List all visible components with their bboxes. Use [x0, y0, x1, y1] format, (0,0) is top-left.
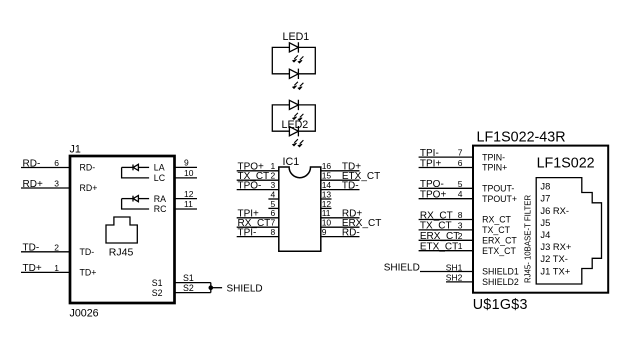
LF pin SH1 wire with net SHIELD [384, 262, 473, 273]
svg-text:1: 1 [458, 241, 463, 251]
svg-text:RD+: RD+ [80, 183, 98, 193]
IC1 pin 6 wire TPI+ [237, 208, 279, 219]
svg-text:RJ45- 10BASE-T FILTER: RJ45- 10BASE-T FILTER [524, 195, 533, 283]
svg-text:J3 RX+: J3 RX+ [540, 241, 572, 252]
svg-text:RD+: RD+ [23, 179, 43, 190]
svg-text:TD-: TD- [342, 180, 359, 191]
svg-text:TPI+: TPI+ [420, 158, 442, 169]
LF pin 5 wire TPO- [419, 179, 473, 190]
svg-text:TPO-: TPO- [238, 180, 262, 191]
svg-text:TPOUT+: TPOUT+ [482, 194, 517, 204]
svg-text:TPI-: TPI- [238, 227, 257, 238]
svg-text:ETX_CT: ETX_CT [482, 246, 516, 256]
J1 pin 6 wire RD- [21, 158, 70, 169]
J1 pin 11 stub [175, 199, 198, 209]
svg-text:TPIN-: TPIN- [482, 152, 505, 162]
svg-text:TPO-: TPO- [420, 179, 444, 190]
junction dot [209, 285, 214, 290]
svg-text:S2: S2 [152, 288, 163, 298]
svg-text:TPOUT-: TPOUT- [482, 184, 514, 194]
IC1 pin 10 wire ERX_CT [321, 218, 382, 229]
svg-text:RD-: RD- [342, 227, 360, 238]
svg-text:TX_CT: TX_CT [420, 221, 452, 232]
IC1 pin 14 wire TD- [321, 180, 360, 191]
svg-text:7: 7 [458, 148, 463, 158]
RJ45 jack outline [536, 178, 601, 284]
svg-text:S1: S1 [152, 278, 163, 288]
svg-text:5: 5 [458, 179, 463, 189]
J1 box outline [70, 156, 175, 303]
RA RC bracket wire [122, 199, 150, 209]
J1 pin 12 stub [175, 189, 198, 199]
LED2 [272, 100, 315, 147]
svg-text:6: 6 [458, 158, 463, 168]
LED1 loop wire [272, 47, 315, 73]
svg-text:RJ45: RJ45 [109, 247, 134, 259]
svg-text:J7: J7 [540, 193, 550, 204]
LED RA diode [133, 196, 149, 202]
LED1 diode B [289, 69, 303, 90]
LED1 [272, 31, 315, 90]
svg-text:TD+: TD+ [80, 268, 97, 278]
svg-text:SHIELD: SHIELD [227, 283, 263, 294]
IC1 pin 15 wire ETX_CT [321, 171, 380, 182]
IC1 pin 11 wire RD+ [321, 208, 363, 219]
svg-text:ETX_CT: ETX_CT [420, 242, 458, 253]
LF pin 3 wire TX_CT [419, 220, 473, 231]
J1 pin 10 stub [175, 168, 198, 178]
IC1 pin 1 wire TPO+ [237, 161, 279, 172]
IC1 pin 3 wire TPO- [237, 180, 279, 191]
LF pin SH2 wire [446, 273, 473, 283]
svg-text:ERX_CT: ERX_CT [420, 231, 459, 242]
J1 pin S1 wire [175, 273, 211, 283]
J1 pin 1 wire TD+ [21, 263, 70, 274]
LED LA diode [133, 164, 149, 170]
svg-text:2: 2 [54, 242, 59, 252]
svg-text:SH1: SH1 [446, 262, 463, 272]
LED LA anode wire [122, 166, 133, 168]
svg-text:3: 3 [54, 179, 59, 189]
LED1 diode A [289, 42, 303, 63]
svg-text:SH2: SH2 [446, 273, 463, 283]
IC1 body [279, 167, 321, 251]
svg-text:J2 TX-: J2 TX- [540, 253, 567, 264]
svg-text:9: 9 [184, 158, 189, 168]
net SHIELD wire [211, 287, 222, 289]
LED2 diode B [289, 126, 303, 147]
svg-text:1: 1 [54, 263, 59, 273]
IC1 pin 9 wire RD- [321, 227, 360, 238]
J1 pin 9 stub [175, 158, 198, 168]
filter module U$1G$3 LF1S022-43R [473, 130, 609, 313]
LF pin 6 wire TPI+ [419, 158, 473, 169]
svg-text:6: 6 [54, 158, 59, 168]
LED2 diode A [289, 100, 303, 121]
svg-text:TD-: TD- [80, 247, 95, 257]
IC1 pin 13 stub [321, 189, 332, 199]
svg-text:LF1S022: LF1S022 [537, 155, 595, 171]
LED2 loop wire [272, 105, 315, 131]
transformer IC1 [279, 156, 321, 252]
svg-text:SHIELD: SHIELD [384, 262, 420, 273]
svg-text:12: 12 [184, 189, 194, 199]
svg-text:RD-: RD- [23, 158, 41, 169]
svg-text:IC1: IC1 [283, 156, 300, 168]
svg-text:J1: J1 [70, 144, 81, 156]
J1 pin 3 wire RD+ [21, 179, 70, 190]
IC1 pin 16 wire TD+ [321, 161, 361, 172]
svg-text:ERX_CT: ERX_CT [482, 236, 517, 246]
svg-text:J0026: J0026 [70, 308, 99, 320]
svg-text:4: 4 [458, 189, 463, 199]
LF pin 4 wire TPO+ [419, 189, 473, 200]
svg-text:TPI-: TPI- [420, 148, 439, 159]
svg-text:U$1G$3: U$1G$3 [473, 297, 528, 313]
svg-text:TPO+: TPO+ [420, 190, 447, 201]
svg-text:2: 2 [458, 231, 463, 241]
svg-text:J8: J8 [540, 181, 550, 192]
IC1 pin 4 stub [268, 189, 278, 199]
svg-text:RD-: RD- [80, 163, 96, 173]
svg-text:RX_CT: RX_CT [482, 215, 511, 225]
IC1 pin 5 stub [268, 199, 278, 209]
J1 pin S2 wire [175, 283, 211, 293]
svg-text:J4: J4 [540, 229, 550, 240]
svg-text:9: 9 [322, 227, 327, 237]
svg-text:LA: LA [154, 163, 165, 173]
svg-text:SHIELD2: SHIELD2 [482, 277, 519, 287]
svg-text:10: 10 [184, 168, 194, 178]
LF pin 2 wire ERX_CT [419, 231, 473, 242]
svg-text:J5: J5 [540, 217, 550, 228]
svg-text:RX_CT: RX_CT [420, 210, 453, 221]
svg-text:J1 TX+: J1 TX+ [540, 265, 570, 276]
RJ45 jack symbol [106, 217, 137, 243]
svg-text:3: 3 [458, 220, 463, 230]
IC1 pin 2 wire TX_CT [237, 171, 279, 182]
IC1 pin 8 wire TPI- [237, 227, 279, 238]
svg-text:TD+: TD+ [23, 263, 42, 274]
LF pin 7 wire TPI- [419, 148, 473, 159]
svg-text:8: 8 [270, 227, 275, 237]
LA LC bracket wire [122, 167, 150, 178]
svg-text:11: 11 [184, 199, 193, 209]
svg-text:LC: LC [154, 173, 166, 183]
svg-text:LED1: LED1 [283, 31, 310, 43]
svg-text:RC: RC [154, 204, 167, 214]
svg-text:TX_CT: TX_CT [482, 225, 510, 235]
svg-text:TD-: TD- [23, 243, 40, 254]
svg-text:J6 RX-: J6 RX- [540, 205, 569, 216]
svg-text:RA: RA [154, 194, 166, 204]
shield tie vertical wire [210, 283, 212, 293]
svg-text:S1: S1 [183, 273, 194, 283]
J1 pin 2 wire TD- [21, 242, 70, 253]
LF pin 1 wire ETX_CT [419, 241, 473, 252]
connector J1 [70, 144, 175, 320]
svg-text:LF1S022-43R: LF1S022-43R [477, 130, 566, 146]
IC1 pin 7 wire RX_CT [237, 218, 279, 229]
LF pin 8 wire RX_CT [419, 210, 473, 221]
svg-text:8: 8 [458, 210, 463, 220]
svg-text:TPIN+: TPIN+ [482, 163, 507, 173]
IC1 pin 12 stub [321, 199, 332, 209]
LED RA anode wire [122, 198, 133, 200]
LF box outline [473, 146, 608, 293]
svg-text:S2: S2 [183, 283, 194, 293]
svg-text:SHIELD1: SHIELD1 [482, 267, 519, 277]
